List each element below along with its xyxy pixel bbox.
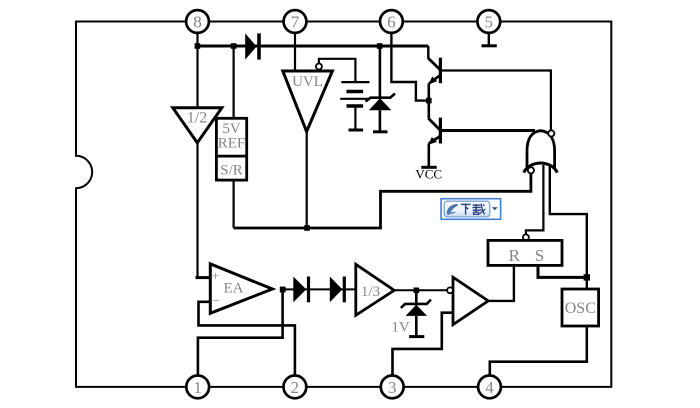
svg-text:OSC: OSC [565, 300, 596, 317]
svg-text:7: 7 [291, 13, 300, 32]
package outline with pin-1 notch [76, 22, 611, 387]
transistor Q2 (lower) [428, 118, 440, 167]
wire Q1 base to gate top bubble [440, 71, 551, 131]
wire S/R box to net [233, 180, 235, 228]
text 下载 drawn strokes [461, 204, 486, 215]
node junction 1V zener tap [414, 288, 420, 294]
node junction Q1 emitter / pin6 [426, 98, 432, 104]
transistor Q1 (upper) [428, 46, 440, 118]
svg-text:REF: REF [218, 136, 246, 152]
battery/capacitor stack [340, 82, 370, 130]
svg-text:1/3: 1/3 [361, 284, 380, 300]
wire gate bottom-left bubble to net [234, 173, 531, 228]
wire EA minus input to pin2 [199, 302, 295, 375]
wire Q2 base to gate [440, 129, 535, 132]
node junction UVL/net [304, 225, 310, 231]
comparator U2 [453, 277, 488, 324]
VCC bus wire [196, 45, 428, 48]
dropdown arrow [492, 207, 498, 210]
svg-text:+: + [212, 268, 219, 283]
wire R input from comparator output [488, 265, 514, 301]
pin 4 [478, 376, 501, 399]
node junction EA output [280, 287, 286, 293]
zener 1V [391, 290, 431, 336]
svg-text:−: − [213, 293, 220, 308]
svg-text:R: R [509, 246, 521, 265]
wire S output to OSC node [538, 265, 587, 277]
diode D2 [293, 277, 310, 303]
wire comparator lower input to pin3 [393, 313, 454, 375]
svg-text:S: S [535, 246, 544, 265]
wire EA output to diodes to 1/3 [283, 288, 356, 290]
node junction pin8/bus [195, 43, 201, 49]
svg-text:4: 4 [485, 378, 494, 397]
svg-text:1/2: 1/2 [187, 110, 207, 127]
pin 7 [284, 10, 307, 33]
bubble gate bottom-left [528, 167, 534, 173]
wire pin8 vertical through 1/2 to EA+ [196, 46, 198, 278]
download button overlay [441, 199, 501, 220]
svg-text:EA: EA [224, 281, 244, 297]
op-amp UVL triangle [283, 71, 333, 132]
svg-text:3: 3 [388, 378, 397, 397]
svg-text:8: 8 [193, 13, 202, 32]
5V REF / S-R box [216, 118, 246, 180]
svg-text:2: 2 [291, 378, 300, 397]
wire pin7 to UVL [294, 30, 296, 72]
wire UVL output to net [306, 132, 308, 228]
node junction S/OSC [584, 274, 590, 280]
svg-text:1: 1 [193, 378, 202, 397]
wire pin6 to transistor junction [391, 30, 428, 101]
error amp EA [210, 264, 272, 313]
svg-text:VCC: VCC [415, 167, 442, 182]
diode D1 on bus [245, 33, 261, 59]
bubble RS top [523, 234, 529, 240]
pin 8 [186, 10, 209, 33]
wire EA plus input elbow [196, 276, 211, 279]
node junction bus/5VREF [231, 43, 237, 49]
icon swoosh arrow [447, 204, 458, 215]
zener diode at bus [366, 46, 395, 132]
buffer 1/3 triangle [356, 264, 394, 315]
wire EA output to pin1 [198, 289, 283, 375]
pin 3 [381, 376, 404, 399]
pin 2 [284, 376, 307, 399]
bubble on UVL top [316, 64, 322, 70]
svg-text:UVL: UVL [292, 74, 323, 90]
svg-text:5: 5 [485, 13, 494, 32]
wire gate input1 to RS bubble [526, 165, 544, 234]
pin 5 stub and bar [488, 33, 490, 45]
latch R S box [488, 240, 562, 265]
pin 5 [477, 10, 500, 33]
svg-text:S/R: S/R [220, 163, 243, 179]
wire gate input2 to OSC node [550, 165, 587, 289]
bubble comparator input [447, 287, 453, 293]
wire UVL bubble to capacitor [319, 59, 356, 82]
OSC box [562, 289, 599, 326]
wire 1/3 output to comparator [394, 289, 447, 291]
wire OSC to pin4 [490, 326, 587, 375]
wire bus to 5VREF box [233, 46, 235, 119]
pin 6 [380, 10, 403, 33]
wire pin8 to bus junction [196, 30, 198, 46]
op-amp 1/2 divider triangle [173, 108, 222, 143]
diode D3 [330, 277, 346, 303]
svg-text:6: 6 [387, 13, 396, 32]
OR gate U1 (pointing up) [524, 131, 557, 173]
VCC bar [421, 166, 436, 169]
bubble gate top-right [548, 130, 554, 136]
svg-text:1V: 1V [391, 320, 410, 336]
node junction bus/zener [377, 43, 383, 49]
pin 1 [186, 376, 209, 399]
